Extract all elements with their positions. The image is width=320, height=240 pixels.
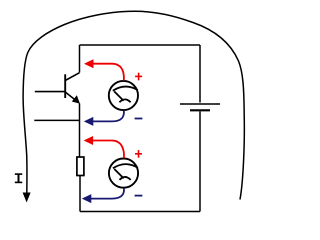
outer flux loop with current arrow bbox=[23, 11, 244, 199]
M1 red probe to collector bbox=[92, 64, 124, 81]
circuit loop wires bbox=[34, 45, 200, 212]
emitter arrowhead bbox=[72, 95, 80, 104]
wire: right edge lower (from battery) bbox=[199, 112, 201, 212]
M1 plus label bbox=[135, 73, 142, 81]
base lead bbox=[35, 91, 65, 93]
emitter diagonal bbox=[65, 92, 76, 101]
M1 blue probe to emitter bbox=[92, 111, 124, 122]
M2 blue probe below resistor bbox=[90, 188, 125, 199]
wire: top edge bbox=[80, 44, 201, 46]
wire: base return lead bbox=[34, 119, 79, 121]
wire: right edge upper (to battery) bbox=[199, 45, 201, 103]
label I bbox=[15, 174, 22, 183]
wire: bottom edge bbox=[80, 211, 200, 213]
wire: left edge bottom segment (resistor to corner) bbox=[79, 176, 81, 212]
current arrowhead (down) bbox=[23, 193, 31, 203]
M2 plus label bbox=[135, 150, 142, 158]
M2 minus label bbox=[135, 195, 143, 197]
wire: left edge emitter-to-resistor segment bbox=[79, 104, 81, 158]
M1 minus label bbox=[135, 118, 143, 120]
collector diagonal bbox=[65, 73, 79, 81]
battery V1 bbox=[180, 104, 220, 110]
resistor R1 bbox=[77, 157, 84, 176]
voltmeter M2 (V_R) bbox=[109, 159, 138, 188]
base bar bbox=[64, 74, 66, 98]
wire: collector segment bbox=[79, 45, 81, 73]
transistor Q1 (NPN) bbox=[35, 73, 80, 101]
voltmeter M1 (V_CE) bbox=[109, 81, 138, 110]
M2 red probe above resistor bbox=[91, 141, 124, 159]
